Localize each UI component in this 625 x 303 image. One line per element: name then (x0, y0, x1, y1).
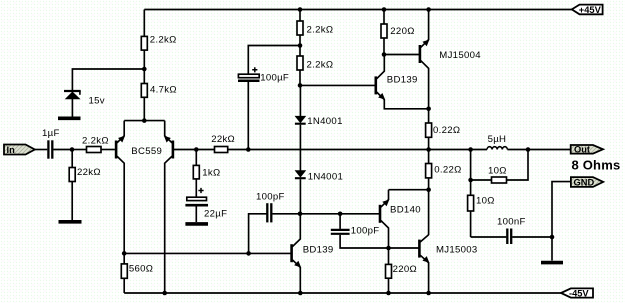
resistor 2.2k input series (72, 147, 115, 153)
node bootstrap junction (298, 43, 303, 48)
svg-text:0.22Ω: 0.22Ω (433, 125, 460, 136)
resistor R2 2.2k (297, 10, 303, 46)
wire MJ15003 collector riser (428, 190, 430, 235)
wire D1 to D2 (299, 125, 301, 171)
transistor Q3 BD139 top (376, 55, 429, 109)
wire to diode D1 (299, 85, 301, 116)
svg-text:In: In (7, 145, 16, 155)
transistor Q7 BD139 lower (292, 214, 301, 293)
svg-text:22kΩ: 22kΩ (211, 134, 235, 145)
svg-text:1µF: 1µF (42, 128, 60, 139)
svg-text:1kΩ: 1kΩ (202, 167, 220, 178)
svg-text:-45V: -45V (569, 289, 589, 299)
wire C1 to node (53, 149, 72, 151)
svg-text:22kΩ: 22kΩ (77, 167, 101, 178)
svg-text:5µH: 5µH (488, 134, 507, 145)
diode D1 1N4001 (295, 116, 306, 123)
node Q2 base junction (194, 147, 199, 152)
capacitor 100uF (238, 46, 300, 150)
wire 22k fb to node (228, 149, 249, 151)
resistor 560 (121, 253, 127, 293)
svg-text:BD139: BD139 (387, 74, 418, 85)
capacitor C1 1uF (48, 140, 52, 158)
resistor R1 2.2k (141, 36, 147, 50)
resistor 220 bottom (386, 248, 392, 293)
wire bias line right (300, 213, 379, 215)
node driver emitter junction (426, 107, 431, 112)
svg-text:100pF: 100pF (351, 226, 380, 237)
transistor Q4 BD140 (380, 190, 389, 248)
ground (zener) (58, 117, 81, 121)
svg-text:BD140: BD140 (390, 205, 421, 216)
resistor R3 2.2k (297, 46, 303, 86)
node 100pF2 junction (338, 212, 343, 217)
power -45V tag (561, 288, 593, 298)
wire 22k to ground (71, 182, 73, 221)
diode D2 1N4001 (295, 171, 306, 179)
wire 22k top lead (71, 150, 73, 168)
port Out tag (571, 145, 603, 155)
node inductor out junction (526, 147, 531, 152)
wire to zener (72, 69, 144, 90)
svg-text:2.2kΩ: 2.2kΩ (307, 59, 334, 70)
svg-text:8 Ohms: 8 Ohms (572, 157, 621, 172)
transistor Q6 MJ15003 (419, 235, 429, 293)
node output junction upper (426, 147, 431, 152)
transistor Q2 BC559 right (164, 121, 196, 293)
wire 4.7k bottom lead (143, 97, 145, 120)
svg-text:100µF: 100µF (260, 73, 289, 84)
node VAS top junction (298, 83, 303, 88)
node top rail 220 (382, 7, 387, 12)
node rail Q2 collector (162, 291, 167, 296)
wire zener to ground (71, 99, 73, 117)
node junction R1/4.7k (142, 67, 147, 72)
svg-text:2.2kΩ: 2.2kΩ (82, 135, 109, 146)
port GND tag (571, 177, 603, 187)
transistor Q5 MJ15004 (420, 10, 429, 109)
wire main output line (248, 149, 487, 151)
svg-text:1N4001: 1N4001 (308, 171, 343, 182)
resistor 22k input (69, 168, 75, 182)
node lower emitter junction (426, 187, 431, 192)
wire D2 to bias node (299, 179, 301, 214)
svg-text:2.2kΩ: 2.2kΩ (150, 35, 177, 46)
wire base to 22k fb (196, 149, 214, 151)
wire In to C1 (35, 149, 48, 151)
node input junction (70, 147, 75, 152)
node rail 220 bottom (386, 291, 391, 296)
wire zobel riser (470, 150, 472, 181)
resistor 10 series (468, 180, 474, 237)
ground (22uF) (185, 222, 208, 226)
resistor 0.22 upper (426, 109, 432, 150)
svg-text:2.2kΩ: 2.2kΩ (307, 24, 334, 35)
power +45V tag (572, 5, 603, 16)
node 100nF junction (550, 235, 555, 240)
node emitters junction (142, 118, 147, 123)
wire diff collector line (124, 252, 291, 254)
svg-text:MJ15004: MJ15004 (439, 50, 481, 61)
svg-text:4.7kΩ: 4.7kΩ (150, 85, 177, 96)
svg-text:+45V: +45V (579, 5, 602, 15)
port In tag (4, 145, 35, 156)
zener diode 15v (64, 91, 81, 99)
svg-text:BC559: BC559 (131, 146, 162, 157)
svg-text:1N4001: 1N4001 (307, 116, 342, 127)
wire +45V top rail (144, 9, 572, 11)
wire emitter common line (124, 120, 165, 122)
node rail BD139 emitter (298, 291, 303, 296)
node 220 base junction (382, 52, 387, 57)
svg-text:10Ω: 10Ω (476, 196, 495, 207)
capacitor 100nF (471, 229, 552, 245)
label + 22uF (198, 188, 203, 193)
node rail MJ15003 emitter (426, 291, 431, 296)
resistor 22k feedback (215, 147, 228, 153)
wire to BD139 top base (300, 84, 375, 86)
svg-text:560Ω: 560Ω (129, 263, 153, 274)
svg-text:GND: GND (574, 178, 595, 188)
wire R1 bottom lead (143, 50, 145, 69)
wire R1 top lead (143, 10, 145, 37)
ground (output) (541, 261, 563, 265)
svg-text:220Ω: 220Ω (390, 26, 414, 37)
svg-text:15v: 15v (89, 95, 105, 106)
wire 4.7k top lead (143, 69, 145, 84)
wire base to MJ15004 (384, 54, 419, 56)
node collector junction left (122, 251, 127, 256)
wire -45V bottom rail (124, 292, 561, 294)
node top rail R2 (298, 7, 303, 12)
node top rail MJ15004 (426, 7, 431, 12)
resistor 10 parallel (471, 150, 528, 184)
svg-text:100pF: 100pF (256, 192, 285, 203)
ground (22k input) (59, 220, 82, 224)
label + 100uF (252, 67, 257, 72)
capacitor 100pF right (331, 214, 419, 248)
node BD140 collector junction (386, 246, 391, 251)
svg-text:22µF: 22µF (204, 209, 227, 220)
capacitor 100pF left (267, 203, 300, 222)
svg-text:220Ω: 220Ω (393, 264, 417, 275)
resistor 220 top (381, 10, 387, 55)
resistor 1k (193, 150, 199, 198)
wire bias line left corner (249, 214, 267, 254)
inductor 5uH (487, 147, 507, 150)
wire GND riser (552, 182, 571, 261)
wire inductor to out (507, 149, 570, 151)
svg-text:MJ15003: MJ15003 (436, 244, 478, 255)
transistor Q1 BC559 left (116, 121, 124, 254)
capacitor 22uF (185, 197, 208, 222)
resistor 0.22 lower (426, 150, 432, 190)
node output zobel junction (468, 147, 473, 152)
node 10ohm junction (468, 178, 473, 183)
node bias junction (298, 212, 303, 217)
svg-text:10Ω: 10Ω (488, 166, 507, 177)
node feedback junction (246, 147, 251, 152)
svg-text:Out: Out (574, 145, 590, 155)
svg-text:BD139: BD139 (303, 244, 334, 255)
svg-text:0.22Ω: 0.22Ω (434, 165, 461, 176)
resistor 4.7k (141, 84, 147, 98)
svg-text:100nF: 100nF (497, 216, 526, 227)
node 100pF junction (246, 251, 251, 256)
wire BD140 emitter line (389, 189, 429, 191)
